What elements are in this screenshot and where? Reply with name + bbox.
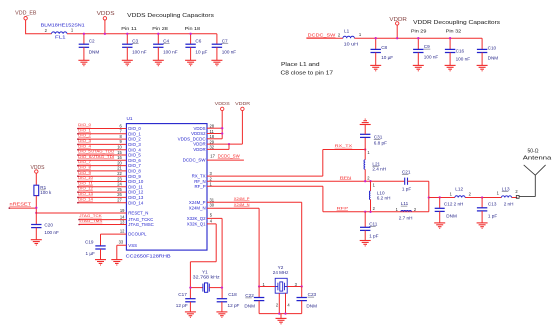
svg-text:1 pF: 1 pF — [369, 234, 378, 239]
wire VDDR rail — [354, 37, 482, 39]
wire X32K_Q1 pin 4 — [190, 224, 216, 299]
ground — [95, 260, 106, 265]
svg-text:JTAG_TMSC: JTAG_TMSC — [128, 222, 154, 227]
svg-text:30: 30 — [210, 203, 215, 208]
svg-text:VDDS: VDDS — [194, 126, 206, 131]
junction — [364, 180, 366, 182]
svg-text:DNM: DNM — [89, 49, 100, 54]
capacitor C19 1 uF — [95, 246, 105, 249]
svg-text:DIO_14: DIO_14 — [128, 200, 144, 205]
wire RF_P pin 1 — [207, 186, 429, 212]
svg-text:26: 26 — [117, 192, 122, 197]
svg-text:22: 22 — [117, 171, 122, 176]
wire net DIO_10 — [77, 181, 126, 183]
svg-text:Pin 11: Pin 11 — [121, 26, 137, 31]
svg-text:32.768 kHz: 32.768 kHz — [193, 274, 221, 279]
wire net DIO_6/JTAG_TDI — [77, 159, 126, 161]
svg-text:L1: L1 — [344, 29, 350, 34]
capacitor C10 DNM — [481, 38, 483, 49]
svg-text:100 nF: 100 nF — [44, 230, 59, 235]
junction — [369, 180, 371, 182]
svg-text:100 nF: 100 nF — [456, 57, 471, 62]
svg-text:VDDR: VDDR — [193, 147, 205, 152]
svg-text:DIO_0: DIO_0 — [128, 126, 141, 131]
wire net DIO_1 — [77, 133, 126, 135]
svg-text:DIO_3: DIO_3 — [78, 138, 92, 143]
wire VDDS_DCDC pin 18 — [207, 138, 222, 140]
capacitor C12 DNM — [439, 196, 441, 198]
junction — [35, 212, 37, 214]
svg-text:C9: C9 — [424, 44, 430, 49]
resistor R1 100 k — [34, 185, 39, 195]
svg-text:23: 23 — [117, 176, 122, 181]
ground — [276, 318, 287, 323]
svg-text:DIO_6: DIO_6 — [128, 158, 141, 163]
svg-text:JTAG_TMS: JTAG_TMS — [79, 218, 102, 223]
svg-text:VDDR: VDDR — [193, 142, 205, 147]
junction — [369, 211, 371, 213]
svg-text:C18: C18 — [228, 292, 237, 297]
capacitor C18 12 pF — [217, 299, 227, 302]
junction node RX_TX — [364, 148, 366, 150]
op-amp U1 CC2650F128RHB body — [126, 124, 207, 251]
wire net DIO_11 — [77, 186, 126, 188]
svg-text:DIO_4: DIO_4 — [128, 147, 141, 152]
svg-text:24: 24 — [117, 182, 122, 187]
svg-text:VDDS: VDDS — [215, 101, 231, 107]
svg-text:DIO_2: DIO_2 — [128, 137, 141, 142]
ground — [31, 240, 42, 245]
svg-text:C16: C16 — [456, 49, 465, 54]
ground — [185, 312, 196, 317]
wire DCOUPL pin 12 — [101, 234, 127, 246]
svg-text:DCDC_SW: DCDC_SW — [218, 154, 241, 159]
svg-text:13: 13 — [120, 219, 125, 224]
svg-text:2.4 nH: 2.4 nH — [372, 167, 386, 172]
svg-text:C12: C12 — [444, 202, 453, 207]
svg-text:RF_P: RF_P — [194, 184, 205, 189]
junction — [375, 37, 377, 39]
svg-text:VDD_EB: VDD_EB — [15, 11, 37, 17]
svg-text:DIO_11: DIO_11 — [128, 184, 143, 189]
svg-text:nRESET: nRESET — [10, 202, 32, 207]
wire VDDR flag drop — [396, 25, 398, 38]
junction — [221, 286, 223, 288]
wire net DIO_14 — [77, 202, 126, 204]
wire Y2 pin1 — [259, 286, 275, 288]
ground — [360, 241, 371, 246]
junction — [364, 211, 366, 213]
wire VDDS pin 28 — [207, 127, 222, 129]
svg-text:6.8 pF: 6.8 pF — [374, 141, 387, 146]
svg-text:L21: L21 — [372, 161, 380, 166]
svg-text:24 MHz: 24 MHz — [273, 270, 289, 275]
svg-text:1 pF: 1 pF — [488, 213, 497, 218]
svg-text:10 µF: 10 µF — [195, 49, 207, 54]
junction — [284, 312, 286, 314]
svg-text:Pin 28: Pin 28 — [152, 26, 168, 31]
svg-text:C20: C20 — [44, 223, 53, 228]
wire X32K_Q2 pin 5 — [207, 218, 222, 298]
svg-text:DIO_11: DIO_11 — [78, 180, 94, 185]
svg-text:100 k: 100 k — [40, 190, 52, 195]
svg-text:DIO_5/JTAG_TDO: DIO_5/JTAG_TDO — [78, 149, 114, 154]
svg-text:C19: C19 — [85, 239, 94, 244]
capacitor C6 10 µF — [190, 34, 192, 44]
ground — [153, 60, 164, 65]
ground — [185, 60, 196, 65]
svg-text:L12: L12 — [455, 187, 463, 192]
wire DCDC_SW to L1 — [306, 37, 343, 39]
ground — [111, 260, 122, 265]
svg-text:X32K_Q1: X32K_Q1 — [187, 222, 206, 227]
wire VDDS flag drop — [104, 20, 106, 34]
svg-text:VDDS Decoupling Capacitors: VDDS Decoupling Capacitors — [127, 13, 214, 19]
svg-text:VDDS: VDDS — [97, 11, 116, 17]
junction node RF out — [428, 196, 430, 198]
svg-text:RFP: RFP — [337, 205, 349, 210]
svg-text:DCDC_SW: DCDC_SW — [308, 32, 336, 37]
svg-text:RESET_N: RESET_N — [128, 211, 148, 216]
svg-text:10 uH: 10 uH — [344, 42, 358, 47]
ground — [211, 60, 222, 65]
capacitor C21 1 pF — [405, 178, 408, 185]
svg-text:C21: C21 — [402, 170, 411, 175]
capacitor C9 100 nF — [417, 38, 419, 49]
svg-text:C8: C8 — [381, 45, 387, 50]
svg-text:12 pF: 12 pF — [176, 303, 188, 308]
wire RX_TX pin 3 — [207, 150, 365, 177]
svg-text:C13: C13 — [488, 202, 497, 207]
ground — [445, 65, 456, 70]
wire nRESET stub — [9, 207, 36, 209]
svg-text:FL1: FL1 — [55, 34, 66, 39]
junction — [301, 285, 303, 287]
svg-text:VDDS: VDDS — [31, 165, 46, 171]
ground — [216, 312, 227, 317]
ground — [434, 223, 445, 228]
junction — [278, 312, 280, 314]
svg-text:DIO_8: DIO_8 — [78, 165, 92, 170]
svg-text:U1: U1 — [127, 116, 133, 121]
svg-text:X24M_P: X24M_P — [234, 196, 250, 201]
wire net JTAG_TMS pin 13 — [79, 224, 127, 226]
svg-text:DIO_8: DIO_8 — [128, 169, 141, 174]
svg-text:DIO_9: DIO_9 — [128, 174, 141, 179]
junction — [83, 33, 85, 35]
svg-text:25: 25 — [117, 187, 122, 192]
svg-text:18: 18 — [210, 134, 215, 139]
wire VDDR drop — [241, 111, 243, 145]
svg-text:29: 29 — [210, 139, 215, 144]
junction — [157, 33, 159, 35]
ground — [78, 60, 89, 65]
capacitor C23 DNM — [301, 287, 303, 298]
svg-text:DIO_4: DIO_4 — [78, 143, 92, 148]
svg-text:C3: C3 — [132, 38, 138, 43]
svg-text:2 nH: 2 nH — [454, 202, 464, 207]
svg-text:DIO_12: DIO_12 — [128, 190, 144, 195]
svg-text:DCDC_SW: DCDC_SW — [183, 158, 207, 163]
svg-text:2.7 nH: 2.7 nH — [399, 216, 413, 221]
svg-text:27: 27 — [117, 198, 122, 203]
svg-text:11: 11 — [210, 129, 215, 134]
svg-text:32: 32 — [210, 145, 215, 150]
svg-text:12 pF: 12 pF — [228, 303, 240, 308]
svg-text:C8 close to pin 17: C8 close to pin 17 — [281, 71, 334, 77]
svg-text:DNM: DNM — [306, 304, 317, 309]
junction — [417, 37, 419, 39]
svg-text:DIO_9: DIO_9 — [78, 170, 92, 175]
capacitor C17 12 pF — [185, 299, 195, 302]
svg-text:33: 33 — [119, 239, 124, 244]
svg-text:C31: C31 — [374, 134, 383, 139]
svg-text:VSS: VSS — [128, 243, 137, 248]
wire X24M_P pin 31 — [207, 202, 302, 286]
svg-text:DIO_0: DIO_0 — [78, 122, 92, 127]
svg-text:VDDS_DCDC: VDDS_DCDC — [178, 136, 206, 141]
svg-text:DIO_14: DIO_14 — [78, 196, 94, 201]
svg-text:X32K_Q2: X32K_Q2 — [187, 216, 206, 221]
svg-text:DIO_1: DIO_1 — [78, 127, 92, 132]
ground — [477, 65, 488, 70]
wire net nRESET to RESET_N pin 19 — [36, 212, 126, 214]
svg-text:C6: C6 — [195, 38, 201, 43]
svg-text:C23: C23 — [308, 292, 317, 297]
svg-text:19: 19 — [120, 208, 125, 213]
svg-text:C17: C17 — [178, 292, 187, 297]
svg-text:CC2650F128RHB: CC2650F128RHB — [126, 254, 171, 259]
capacitor C22 DNM — [258, 287, 260, 298]
svg-text:Pin 18: Pin 18 — [185, 26, 201, 31]
svg-text:DIO_5: DIO_5 — [128, 153, 141, 158]
svg-text:RX_TX: RX_TX — [335, 143, 353, 148]
wire Y2 pin3 — [287, 286, 302, 288]
wire net DIO_4 — [77, 149, 126, 151]
wire antenna chain — [429, 197, 518, 199]
svg-text:C7: C7 — [222, 38, 228, 43]
wire DCDC_SW pin 17 — [207, 159, 244, 161]
svg-text:DIO_7: DIO_7 — [78, 159, 92, 164]
capacitor C11 1 pF — [364, 212, 366, 228]
svg-text:DIO_6/JTAG_TDI: DIO_6/JTAG_TDI — [78, 154, 114, 159]
wire net DIO_2 — [77, 138, 126, 140]
svg-text:28: 28 — [210, 124, 215, 129]
wire VDDR pin 29 — [207, 143, 242, 145]
svg-text:10 µF: 10 µF — [381, 55, 393, 60]
svg-text:L11: L11 — [401, 201, 409, 206]
svg-text:DCOUPL: DCOUPL — [128, 232, 147, 237]
ground — [370, 65, 381, 70]
svg-text:DNM: DNM — [488, 56, 499, 61]
svg-text:BLM18HE152SN1: BLM18HE152SN1 — [41, 22, 86, 27]
svg-text:Antenna: Antenna — [523, 156, 552, 162]
wire net DIO_12 — [77, 191, 126, 193]
wire net DIO_0 — [77, 128, 126, 130]
svg-text:C11: C11 — [369, 221, 378, 226]
junction — [449, 37, 451, 39]
wire net DIO_9 — [77, 175, 126, 177]
svg-text:DIO_2: DIO_2 — [78, 133, 92, 138]
wire C21 to corner — [408, 181, 429, 212]
svg-text:VDDR Decoupling Capacitors: VDDR Decoupling Capacitors — [413, 20, 500, 26]
svg-text:1 pF: 1 pF — [402, 187, 411, 192]
wire VDDS drop to pins — [221, 111, 223, 139]
capacitor C8 10 µF — [375, 38, 377, 49]
wire net DIO_8 — [77, 170, 126, 172]
ground — [477, 223, 488, 228]
svg-text:6.2 nH: 6.2 nH — [377, 196, 391, 201]
svg-text:DIO_1: DIO_1 — [128, 131, 141, 136]
svg-text:DIO_10: DIO_10 — [128, 179, 144, 184]
svg-text:DIO_3: DIO_3 — [128, 142, 141, 147]
svg-text:15: 15 — [117, 150, 122, 155]
svg-text:10: 10 — [117, 145, 122, 150]
svg-text:C4: C4 — [163, 38, 169, 43]
wire VDDS rail — [67, 33, 217, 35]
svg-text:100 nF: 100 nF — [424, 54, 439, 59]
svg-text:C2: C2 — [89, 38, 95, 43]
svg-text:Place L1 and: Place L1 and — [281, 62, 320, 68]
wire RF_N pin 2 — [207, 180, 405, 182]
svg-text:C22: C22 — [245, 293, 254, 298]
junction — [189, 33, 191, 35]
junction — [126, 33, 128, 35]
svg-text:RFN: RFN — [340, 175, 352, 180]
junction — [104, 33, 106, 35]
svg-text:1 µF: 1 µF — [86, 251, 96, 256]
capacitor C16 100 nF — [449, 38, 451, 49]
junction — [396, 37, 398, 39]
capacitor C4 100 nF — [157, 34, 159, 44]
svg-text:DIO_10: DIO_10 — [78, 175, 94, 180]
capacitor C2 DNM — [83, 34, 85, 44]
ground — [413, 65, 424, 70]
capacitor C3 100 nF — [126, 34, 128, 44]
svg-text:DIO_13: DIO_13 — [78, 191, 94, 196]
wire net DIO_7 — [77, 165, 126, 167]
svg-text:12: 12 — [120, 228, 125, 233]
svg-text:2 nH: 2 nH — [504, 202, 514, 207]
wire net JTAG_TCK pin 14 — [79, 219, 127, 221]
svg-text:21: 21 — [117, 166, 122, 171]
wire R1 to C20 — [35, 196, 37, 225]
svg-text:100 nF: 100 nF — [132, 49, 147, 54]
ground inverted — [360, 119, 371, 124]
wire X24M_N pin 30 — [207, 208, 259, 286]
junction — [35, 207, 37, 209]
terminal antenna feed — [516, 196, 519, 199]
svg-text:DIO_12: DIO_12 — [78, 186, 94, 191]
svg-text:VDDR: VDDR — [235, 101, 251, 107]
svg-text:100 nF: 100 nF — [222, 49, 237, 54]
svg-text:DNM: DNM — [244, 303, 255, 308]
junction — [189, 286, 191, 288]
junction — [258, 285, 260, 287]
svg-text:Pin 32: Pin 32 — [446, 29, 462, 34]
svg-text:C10: C10 — [488, 45, 497, 50]
svg-text:50-Ω: 50-Ω — [528, 149, 539, 155]
wire VDDS2 pin 11 — [207, 133, 222, 135]
capacitor C7 100 nF — [216, 34, 218, 44]
capacitor C13 1 pF — [481, 196, 483, 198]
svg-text:VDDS2: VDDS2 — [191, 131, 206, 136]
svg-text:L13: L13 — [502, 186, 510, 191]
wire net DIO_5/JTAG_TDO — [77, 154, 126, 156]
svg-text:DIO_13: DIO_13 — [128, 195, 144, 200]
wire VSS pin 33 — [117, 245, 127, 259]
svg-text:Pin 29: Pin 29 — [411, 29, 427, 34]
wire VDDS to R1 — [35, 173, 37, 185]
svg-text:DIO_7: DIO_7 — [128, 163, 141, 168]
svg-text:X24M_N: X24M_N — [234, 202, 250, 207]
capacitor C20 100 nF — [31, 225, 41, 228]
wire net DIO_13 — [77, 196, 126, 198]
svg-text:DNM: DNM — [446, 213, 457, 218]
svg-text:20: 20 — [117, 160, 122, 165]
wire Y2 ground rail — [259, 293, 302, 318]
wire VDD_EB to FL1 — [26, 20, 52, 34]
svg-text:100 nF: 100 nF — [163, 49, 178, 54]
svg-text:X24M_N: X24M_N — [189, 205, 206, 210]
svg-text:16: 16 — [117, 155, 122, 160]
wire net DIO_3 — [77, 143, 126, 145]
ground — [122, 60, 133, 65]
svg-text:17: 17 — [210, 154, 215, 159]
wire VDDR pin 32 — [207, 144, 229, 149]
capacitor C31 6.8 pF — [364, 137, 366, 149]
